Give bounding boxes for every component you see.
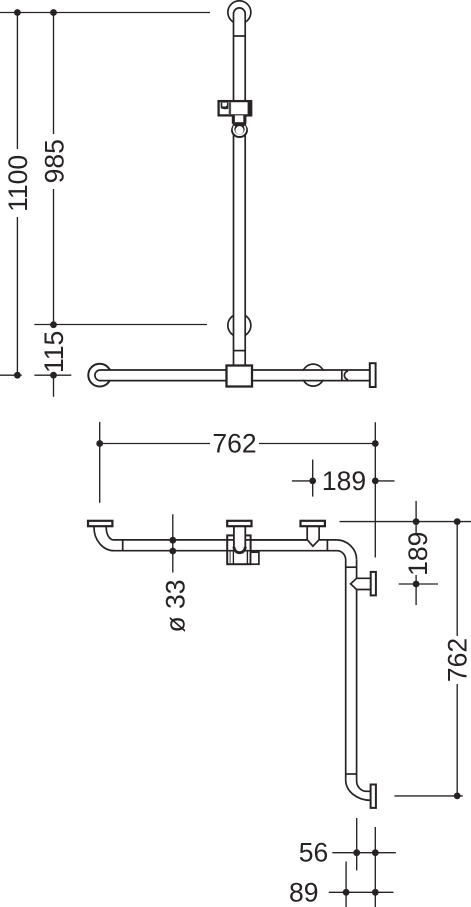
svg-text:985: 985 [40,139,70,183]
wire dim line 762 horizontal [100,443,376,445]
front view: vertical rail tube with rounded cap [234,8,246,366]
svg-text:ø 33: ø 33 [161,579,191,632]
wire dim line 189 horizontal right segment [375,480,394,482]
wire tick 762v bottom [394,795,462,797]
node dim dot 762v bottom [454,793,461,800]
front view: slider window detail [221,102,229,109]
svg-text:189: 189 [403,532,433,576]
node dim dot 985 top [50,9,57,16]
plan view: middle wall flange cone [301,521,325,526]
plan view: left bend outer [94,526,114,551]
wire extension line x=375.3 [374,422,376,557]
plan view: right wall flange plate [371,572,376,596]
front view: holder ring [231,122,248,138]
node dim dot o33 top [169,537,176,544]
front view: right wall plate [370,363,376,387]
plan view: left bend inner [106,526,113,540]
plan view: vertical tube right edge [356,560,358,781]
wire dim line 762 vertical [456,522,458,796]
wire tick left y=375.2 b [34,374,71,376]
front view: rail joint line lower [234,350,246,352]
plan view: vertical joint line bottom [346,773,357,775]
plan view: tube top edge [114,539,337,541]
wire extension line x=356.7 [356,818,358,870]
node dim dot 1100 bottom [14,372,21,379]
plan view: bottom bend inner [357,781,371,791]
node dim dot 89 left [343,889,350,896]
plan view: corner outer arc [336,540,356,560]
plan view: slider inner lines [246,552,248,565]
front view: horizontal bar left segment with rounded cap [95,370,227,381]
wire dim line o33 vertical [172,514,174,572]
plan view: vertical tube left edge [345,560,347,780]
node dim dot 189 left [309,478,316,485]
svg-text:762: 762 [212,429,256,459]
node dim dot o33 bottom [169,548,176,555]
plan view: bottom bend outer [346,780,371,800]
wire extension line x=312.7 [312,460,314,497]
plan view: wall line [340,521,471,523]
node dim dot 189v top [413,518,420,525]
node dim dot 56 left [353,849,360,856]
plan view: middle rail flange plate [227,521,251,526]
node dim dot 115 bottom [50,372,57,379]
node dim dot 762v top [454,518,461,525]
plan view: bottom wall plate [371,785,376,808]
front view: lower wall flange circle on rail [228,314,251,337]
svg-text:1100: 1100 [3,155,33,212]
node dim dot 189v bottom [413,581,420,588]
front view: horizontal bar right segment [252,371,370,380]
wire extension line x=99.7 [99,422,101,503]
wire dim line 189 horizontal left segment [292,480,313,482]
plan view: tube lines across block [227,540,307,551]
svg-text:115: 115 [39,331,69,373]
wire dim line 89 [329,891,394,893]
wire tick 985 y=324.5 [34,324,207,326]
node dim dot 1100 top [14,9,21,16]
front view: bar joint line right [341,370,343,381]
plan view: left wall plate [88,521,112,526]
plan view: left joint line [122,540,124,551]
wire extension line x=346.1 [345,862,347,907]
wire dim line 985 vertical [53,13,55,325]
front view: top wall flange circle [228,1,251,24]
plan view: right wall flange stem [351,578,371,589]
svg-text:762: 762 [442,638,471,682]
wire tick left y=375.2 a [0,374,22,376]
front view: holder arm [232,115,247,123]
node dim dot 89 right [372,889,379,896]
front view: slider block [219,101,252,115]
wire dim line 115 vertical [53,325,55,397]
svg-text:189: 189 [322,466,366,496]
wire dim line 189 vertical [415,501,417,605]
plan view: slider block top view [227,535,250,564]
wire tick 189v bottom [399,583,438,585]
node dim dot 985 bottom [50,321,57,328]
front view: bend cap arc [344,371,348,380]
plan view: corner inner arc [337,551,346,560]
wire extension line x=375.3 bottom [374,827,376,907]
wire top extension line y=12.5 [0,12,210,14]
front view: left end wall plate circle [88,364,111,387]
node dim dot 189 right [372,478,379,485]
front view: junction block [227,366,253,387]
plan view: slider tab right [251,552,259,564]
plan view: tube bottom edge [114,550,337,552]
wire dim line 56 [332,852,396,854]
plan view: rail tube stem and U section [234,526,245,553]
node dim dot 762 right [372,440,379,447]
plan view: corner joint line [326,540,328,551]
svg-text:56: 56 [299,838,328,868]
front view: right wall flange circle [302,364,324,386]
plan view: vertical joint line top [346,566,357,568]
node dim dot 762 left [96,440,103,447]
node dim dot 56 right [372,849,379,856]
svg-text:89: 89 [289,877,318,907]
front view: rail joint line [234,35,246,37]
wire dim line 1100 vertical [16,13,18,376]
